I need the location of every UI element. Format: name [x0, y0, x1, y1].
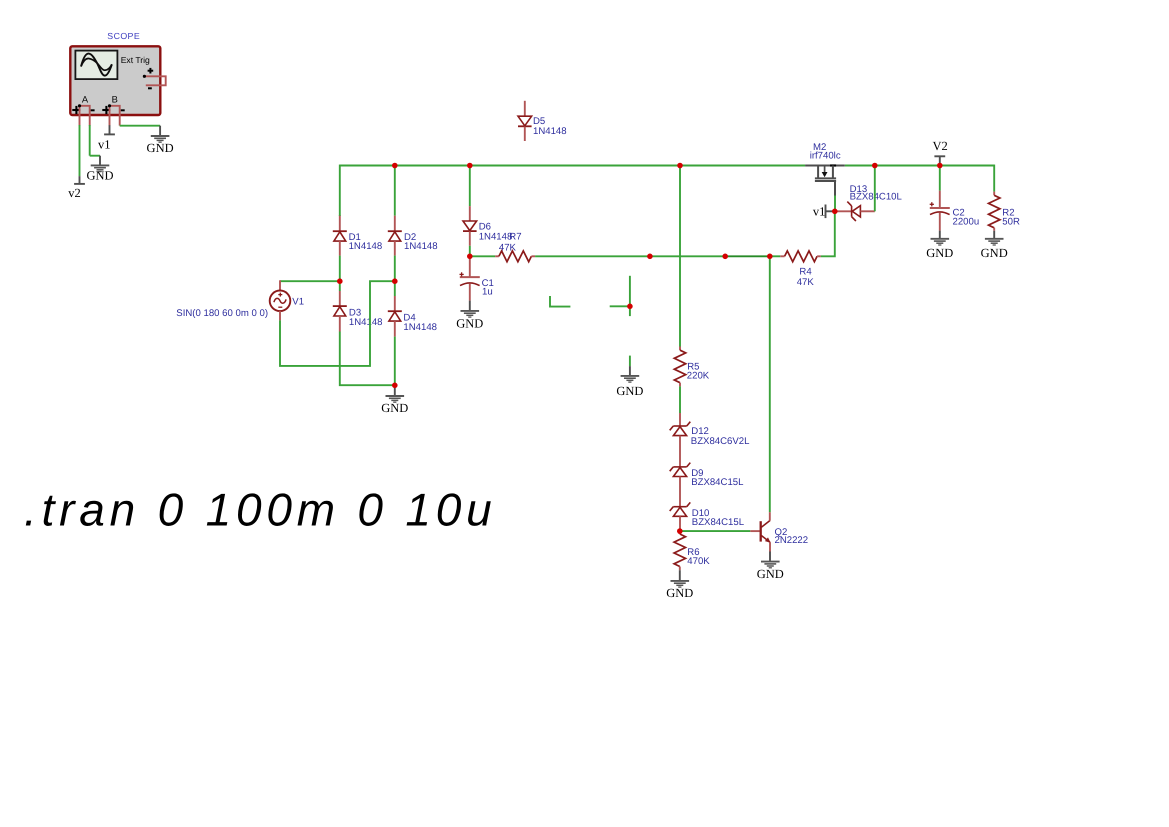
mosfet M2 gate pin mark	[830, 164, 836, 166]
svg-text:470K: 470K	[687, 556, 710, 567]
label D1 1N4148	[349, 232, 383, 252]
net flag V2	[933, 139, 948, 166]
label D3 1N4148	[349, 308, 383, 328]
label D6 1N4148	[479, 222, 513, 243]
ground GND bridge	[381, 396, 408, 415]
node top rail / D13 column	[872, 163, 878, 169]
diode D4 bottom lead	[394, 321, 396, 337]
wire R4 right up to v1 node	[821, 211, 835, 256]
node bridge ground junction	[392, 383, 398, 389]
svg-text:v1: v1	[813, 205, 826, 219]
scope Ext Trig plus sign	[148, 68, 154, 74]
resistor R7	[499, 251, 532, 262]
resistor R5 bottom lead	[679, 383, 681, 387]
scope Ext Trig minus sign	[148, 87, 152, 89]
wire Q2 base	[680, 530, 751, 532]
ground stub C2	[939, 231, 941, 239]
wire mid rail R7 to node	[535, 255, 650, 257]
wire Q2 collector column	[769, 256, 771, 512]
diode D3 bottom lead	[339, 316, 341, 332]
mosfet M2 drain rail segment	[805, 165, 845, 167]
label D9 BZX84C15L	[691, 468, 744, 488]
zener diode D13 (pointing left)	[847, 202, 860, 221]
wire D6 top lead green	[469, 166, 471, 207]
svg-text:GND: GND	[147, 141, 174, 155]
wire scope B- to ground	[120, 125, 160, 127]
wire mid rail node to R7	[470, 255, 495, 257]
mosfet M2 irf740lc symbol	[815, 166, 836, 196]
svg-text:v2: v2	[68, 186, 81, 200]
svg-text:GND: GND	[86, 169, 113, 183]
svg-text:GND: GND	[456, 316, 483, 330]
oscilloscope body	[70, 46, 160, 115]
wire top rail right corner down to R2	[993, 165, 995, 192]
wire D4 to ground node	[394, 337, 396, 386]
resistor R4 right lead	[817, 255, 821, 257]
node floating wire junction	[627, 304, 633, 310]
wire D13 to top rail	[874, 166, 876, 212]
ground stub C1	[469, 301, 471, 311]
scope channel A pin dot	[78, 104, 81, 107]
wire scope B- pin bracket	[110, 106, 120, 126]
wire scope A- pin bracket	[80, 106, 90, 126]
svg-text:V2: V2	[933, 139, 948, 153]
diode D5	[518, 116, 532, 126]
label D4 1N4148	[403, 313, 437, 333]
wire D3 top lead green	[339, 281, 341, 291]
wire D6 to mid rail node	[469, 246, 471, 256]
wire floating vertical with stub	[610, 276, 630, 316]
wire R5 column from top rail	[679, 166, 681, 347]
svg-text:GND: GND	[666, 586, 693, 600]
svg-text:A: A	[82, 94, 89, 104]
diode D1 anode lead	[339, 216, 341, 232]
resistor R7 right lead	[531, 255, 535, 257]
resistor R7 left lead	[495, 255, 499, 257]
transistor Q2 2N2222	[761, 521, 771, 543]
ground GND Q2	[757, 562, 784, 582]
diode D2 top lead	[394, 216, 396, 232]
svg-text:GND: GND	[757, 567, 784, 581]
wire M2 gate to v1 node	[834, 196, 836, 212]
svg-text:B: B	[112, 94, 118, 104]
wire scope A+ pin stub	[79, 106, 81, 126]
ground stub R2	[993, 231, 995, 239]
svg-text:1N4148: 1N4148	[349, 241, 383, 252]
ground GND scope A-	[86, 165, 113, 182]
svg-text:1N4148: 1N4148	[533, 126, 567, 137]
wire scope B+ pin stub	[109, 106, 111, 126]
wire D2 top lead green	[394, 166, 396, 216]
svg-text:50R: 50R	[1002, 216, 1020, 227]
net flag v2	[68, 176, 85, 200]
node top rail / D6 column	[467, 163, 473, 169]
resistor R4 left lead	[780, 255, 784, 257]
node bridge left (D1/D3/V1+)	[337, 278, 343, 284]
wire D1 top lead green	[339, 215, 341, 216]
capacitor C1 bottom lead	[469, 283, 471, 300]
svg-text:1N4148: 1N4148	[349, 317, 383, 328]
diode D4 top lead	[394, 296, 396, 311]
capacitor C1	[460, 272, 480, 285]
label R4 47K	[797, 267, 815, 288]
svg-text:v1: v1	[98, 138, 111, 152]
scope screen sine waveform	[81, 54, 112, 76]
ground stub R6	[679, 570, 681, 580]
svg-text:GND: GND	[616, 384, 643, 398]
source V1 top lead	[279, 280, 281, 290]
label D5 1N4148	[533, 116, 567, 137]
wire V1 minus return path	[280, 281, 395, 366]
svg-text:2200u: 2200u	[953, 216, 980, 227]
wire mid rail node3 to R4	[770, 255, 781, 257]
diode D3	[333, 306, 347, 316]
svg-text:47K: 47K	[797, 277, 815, 288]
diode D1	[333, 231, 347, 241]
node mid rail junction 3 (Q2 collector column)	[767, 253, 773, 259]
node top rail / V2 C2 column	[937, 163, 943, 169]
wire floating L-shape	[550, 296, 570, 307]
wire scope A- down	[89, 125, 91, 156]
source V1 bottom lead	[279, 311, 281, 320]
label R6 470K	[687, 547, 710, 567]
zener diode D9	[670, 463, 691, 477]
svg-text:GND: GND	[381, 401, 408, 415]
diode D2	[388, 231, 402, 241]
diode D4	[388, 311, 402, 321]
wire D4 top lead green	[394, 281, 396, 296]
diode D6	[463, 221, 477, 231]
ground GND C1	[456, 311, 483, 330]
wire floating ground stub green	[629, 356, 631, 367]
wire R5 to D12	[679, 386, 681, 413]
svg-text:GND: GND	[981, 246, 1008, 260]
svg-text:2N2222: 2N2222	[775, 535, 809, 546]
label D10 BZX84C15L	[692, 508, 745, 528]
diode D3 top lead	[339, 291, 341, 306]
node mid rail junction 1	[647, 253, 653, 259]
wire V1 plus to bridge left node	[280, 280, 340, 282]
svg-text:GND: GND	[926, 246, 953, 260]
zener diode D12	[670, 422, 691, 436]
net flag v1 at M2	[813, 205, 835, 219]
label C2 2200u	[953, 207, 980, 227]
ground stub floating	[629, 366, 631, 375]
wire mid rail node2 to node3 (overlapped darker)	[725, 255, 770, 257]
node mid rail / D6 / C1	[467, 253, 473, 259]
capacitor C2 top lead	[939, 191, 941, 208]
ground stub bridge	[394, 385, 396, 395]
svg-text:SIN(0 180 60 0m 0 0): SIN(0 180 60 0m 0 0)	[176, 308, 268, 319]
diode D5 bottom lead	[524, 127, 526, 141]
svg-text:1N4148: 1N4148	[403, 322, 437, 333]
wire C2 top green	[939, 166, 941, 191]
node mid rail junction 2	[722, 253, 728, 259]
wire D2 to bridge right node	[394, 256, 396, 282]
scope channel A plus sign	[72, 106, 80, 114]
wire top rail left segment	[340, 165, 805, 167]
ground stub scope B-	[159, 126, 161, 135]
label R2 50R	[1002, 207, 1020, 227]
resistor R2 top lead	[993, 192, 995, 196]
scope channel B pin dot	[108, 104, 111, 107]
scope channel B minus sign	[121, 109, 125, 111]
wire mid rail node1 to node2	[650, 255, 725, 257]
transistor Q2 collector lead	[769, 512, 771, 521]
wire scope A- to ground	[90, 155, 100, 157]
zener D12-D9 connecting lead	[679, 436, 681, 467]
resistor R6	[674, 534, 685, 567]
zener D9-D10 connecting lead	[679, 477, 681, 507]
svg-text:1N4148: 1N4148	[404, 241, 438, 252]
label R5 220K	[687, 361, 710, 381]
label M2 irf740lc	[810, 142, 841, 162]
svg-text:BZX84C15L: BZX84C15L	[691, 477, 744, 488]
node v1 (M2 gate / R4 / D13)	[832, 209, 838, 215]
resistor R4	[785, 251, 818, 262]
svg-text:V1: V1	[292, 297, 304, 308]
wire scope A+ to v2 flag	[79, 125, 81, 176]
node zener chain / R6 / Q2 base	[677, 528, 683, 534]
wire D1 to bridge left node	[339, 256, 341, 282]
zener D13 cathode lead	[835, 210, 852, 212]
resistor R5 top lead	[679, 347, 681, 351]
net flag v1	[98, 125, 115, 151]
svg-text:R7: R7	[509, 232, 521, 243]
resistor R6 top lead	[679, 531, 681, 534]
wire top rail left corner down to D1	[339, 165, 341, 216]
scope Ext Trig pin dot	[143, 75, 146, 78]
label C1 1u	[482, 278, 494, 298]
ground GND C2	[926, 239, 953, 260]
diode D5 top lead	[524, 101, 526, 116]
ground GND R6	[666, 581, 693, 600]
resistor R6 bottom lead	[679, 567, 681, 571]
wire top rail right segment	[845, 165, 994, 167]
diode D1 bottom lead	[339, 241, 341, 256]
svg-text:BZX84C6V2L: BZX84C6V2L	[691, 436, 750, 447]
ground GND scope B-	[147, 136, 174, 155]
wire D3 to ground node	[340, 332, 395, 386]
resistor R2	[989, 195, 1000, 228]
svg-text:1N4148: 1N4148	[479, 232, 513, 243]
ground GND R2	[981, 239, 1008, 260]
scope channel B plus sign	[102, 106, 110, 114]
ground stub Q2 emitter	[769, 552, 771, 561]
svg-text:1u: 1u	[482, 287, 493, 298]
diode D6 bottom lead	[469, 231, 471, 245]
resistor R5	[674, 350, 685, 383]
diode D6 top lead	[469, 206, 471, 221]
capacitor C2	[930, 202, 950, 214]
scope channel A minus sign	[91, 109, 95, 111]
capacitor C2 bottom lead	[939, 212, 941, 230]
svg-text:irf740lc: irf740lc	[810, 151, 841, 162]
node top rail / R5 column	[677, 163, 683, 169]
wire scope Ext Trig loop	[144, 76, 165, 85]
zener diode D10	[670, 502, 691, 516]
resistor R2 bottom lead	[993, 228, 995, 231]
transistor Q2 base lead	[750, 530, 759, 532]
transistor Q2 emitter lead	[769, 542, 771, 551]
label Q2 2N2222	[775, 527, 809, 546]
zener D13 anode lead	[860, 210, 874, 212]
ground stub scope A-	[99, 156, 101, 166]
svg-text:SCOPE: SCOPE	[107, 31, 140, 41]
svg-text:BZX84C15L: BZX84C15L	[692, 517, 745, 528]
svg-text:.tran 0 100m 0 10u: .tran 0 100m 0 10u	[24, 483, 497, 535]
capacitor C1 top lead	[469, 256, 471, 277]
diode D2 bottom lead	[394, 241, 396, 256]
label D12 BZX84C6V2L	[691, 426, 750, 447]
label D2 1N4148	[404, 232, 438, 252]
node bridge right (D2/D4)	[392, 278, 398, 284]
node top rail / D2 column	[392, 163, 398, 169]
ground GND floating	[616, 376, 643, 398]
zener D12 top lead	[679, 413, 681, 426]
voltage source V1	[270, 291, 291, 312]
svg-text:Ext Trig: Ext Trig	[121, 55, 150, 65]
svg-text:BZX84C10L: BZX84C10L	[850, 192, 903, 203]
label D13 BZX84C10L	[850, 184, 903, 203]
svg-text:220K: 220K	[687, 371, 710, 382]
zener D10 bottom lead	[679, 516, 681, 531]
